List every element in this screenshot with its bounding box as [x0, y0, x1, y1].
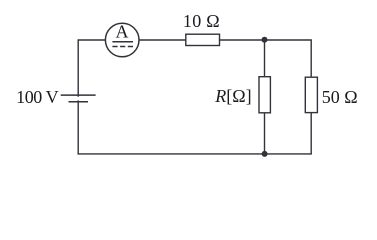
ammeter A1: [105, 21, 139, 56]
wire ammeter to 10 ohm resistor: [139, 39, 186, 41]
resistor R3 50 ohm: [305, 77, 317, 112]
wire middle branch top (node to R): [264, 40, 266, 77]
svg-text:A: A: [116, 21, 129, 41]
svg-text:R[Ω]: R[Ω]: [214, 86, 251, 106]
resistor R: [259, 77, 270, 113]
svg-text:100 V: 100 V: [16, 87, 59, 107]
wire left vertical lower segment (battery to bottom wire): [77, 100, 79, 153]
wire middle branch bottom (R to bottom wire): [264, 113, 266, 154]
wire bottom: [78, 153, 312, 155]
svg-text:50 Ω: 50 Ω: [322, 87, 358, 107]
battery V1 (100 V source): [61, 95, 96, 102]
svg-text:10 Ω: 10 Ω: [183, 11, 220, 31]
wire 10 ohm resistor to top-right corner down to 50 ohm resistor: [220, 40, 312, 77]
wire top-left: left vertical upper segment and top wire to ammeter: [78, 40, 105, 97]
resistor R2 10 ohm: [186, 34, 220, 45]
wire 50 ohm resistor to bottom-right corner: [310, 113, 312, 154]
node junction top: [262, 37, 268, 43]
node junction bottom: [262, 151, 268, 157]
